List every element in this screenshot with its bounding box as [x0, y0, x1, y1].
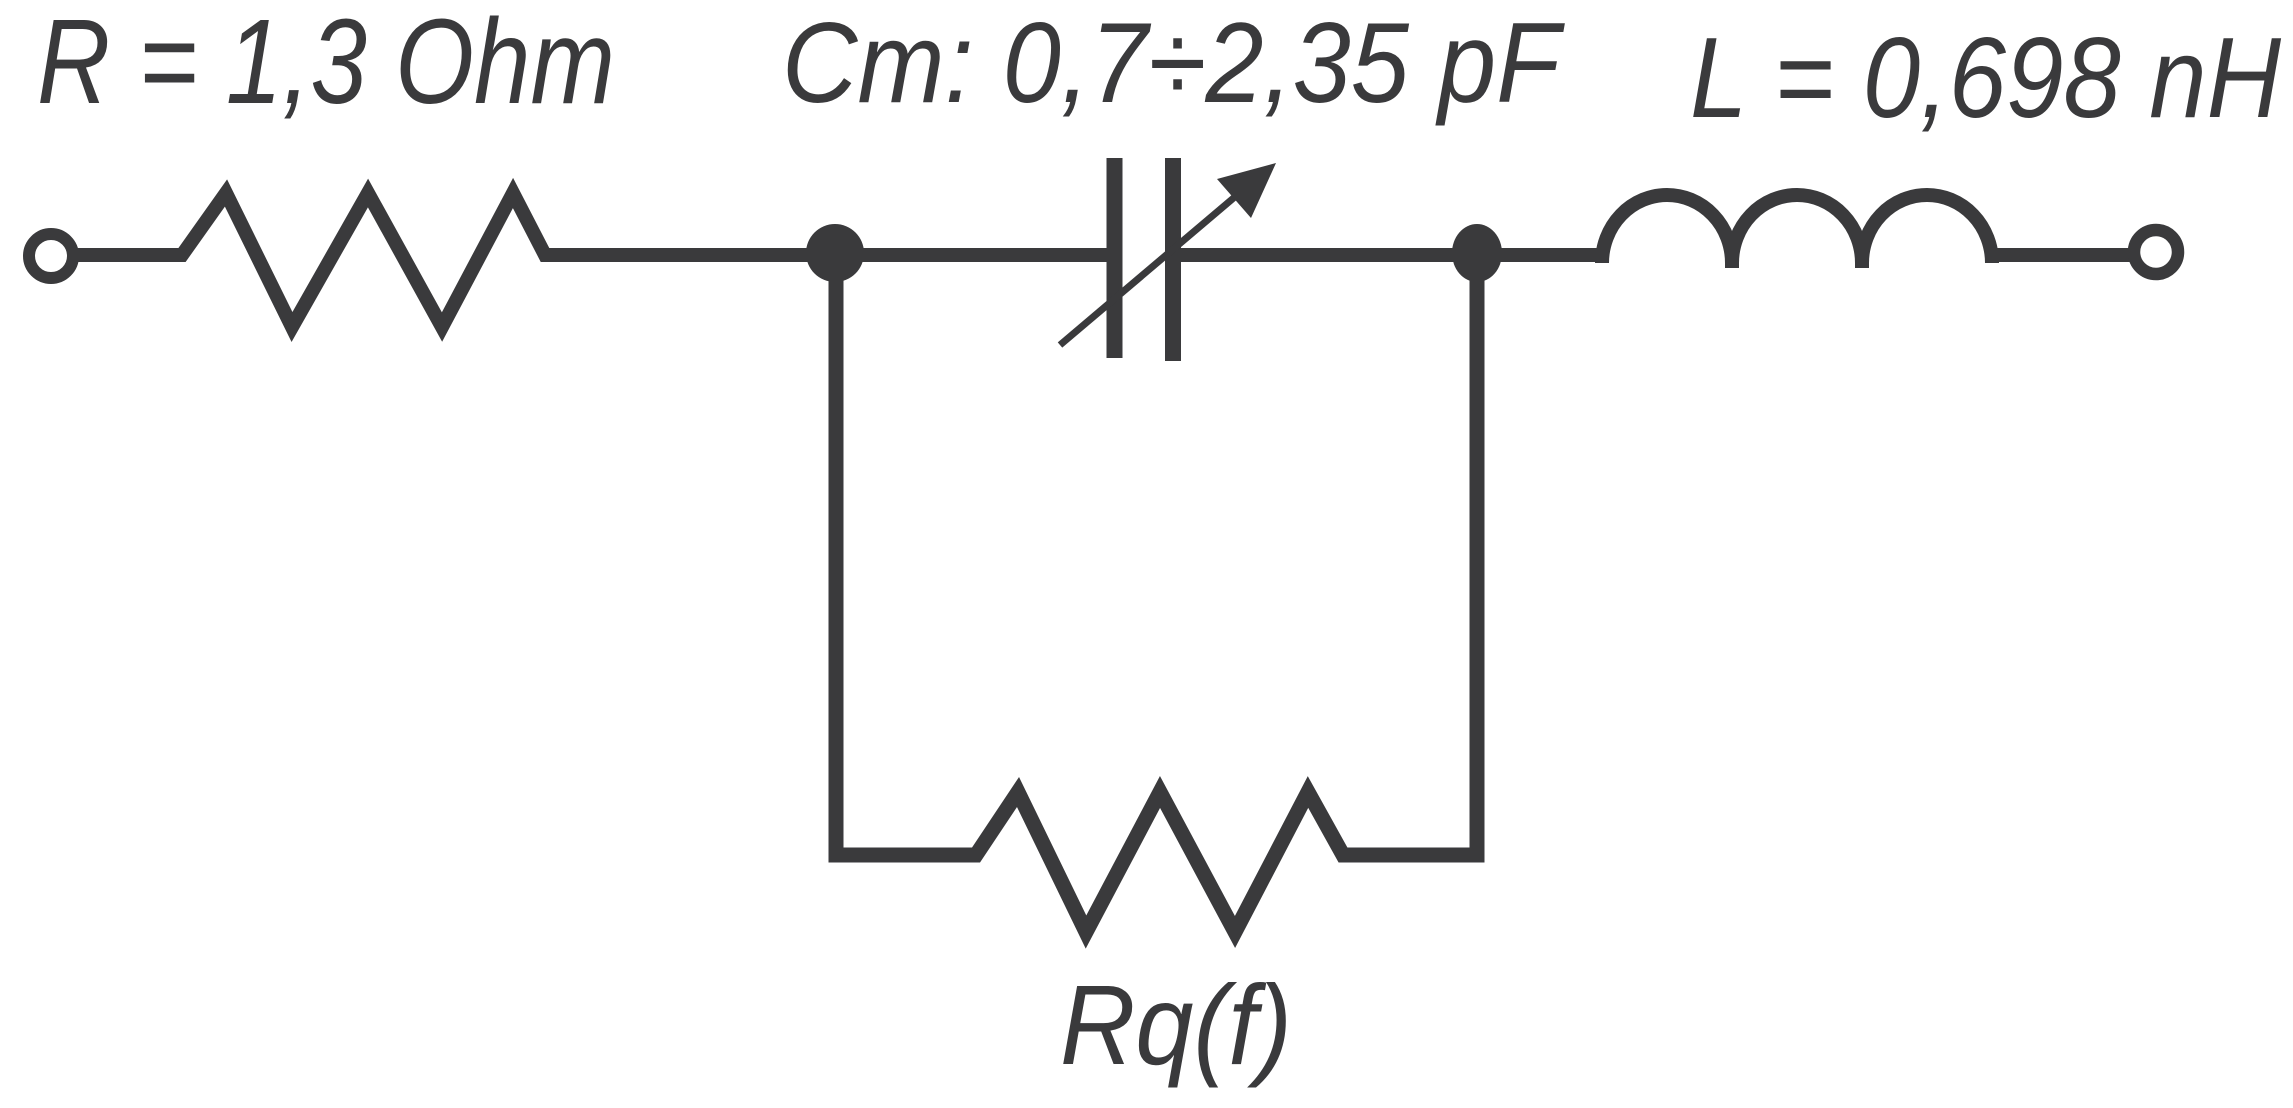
svg-text:L = 0,698 nH: L = 0,698 nH — [1690, 15, 2282, 142]
svg-text:Rq(f): Rq(f) — [1060, 962, 1292, 1088]
svg-text:R = 1,3 Ohm: R = 1,3 Ohm — [37, 0, 615, 129]
svg-text:Cm: 0,7÷2,35 pF: Cm: 0,7÷2,35 pF — [782, 0, 1565, 127]
